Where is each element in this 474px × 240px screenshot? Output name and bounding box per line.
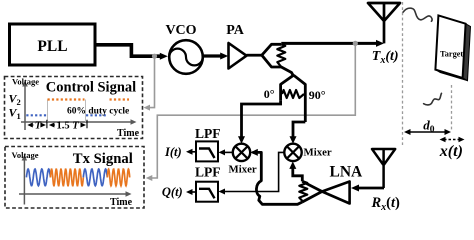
node junction on Tx wire <box>353 41 358 46</box>
svg-text:Mixer: Mixer <box>229 164 257 176</box>
svg-text:Target: Target <box>440 50 463 59</box>
wire PA to splitter <box>247 54 262 57</box>
gray level transition lines <box>48 100 86 123</box>
Tx Signal inset box <box>5 147 144 209</box>
displacement x(t) arrow <box>444 139 460 141</box>
svg-text:Time: Time <box>117 128 140 139</box>
radiated wave squiggle (Tx) <box>403 8 432 21</box>
PLL block U1 <box>10 24 96 65</box>
LNA U6 <box>322 182 350 204</box>
svg-text:PA: PA <box>226 23 245 38</box>
svg-text:Voltage: Voltage <box>12 77 39 87</box>
period tick marks <box>47 120 87 128</box>
svg-text:PLL: PLL <box>37 38 67 55</box>
svg-text:60% duty cycle: 60% duty cycle <box>67 107 129 117</box>
tx waveform orange segment 1 <box>50 169 83 185</box>
wire mixer I to LPF1 <box>224 151 233 153</box>
Rx antenna <box>372 149 395 188</box>
control waveform V2 level (orange dashed) <box>48 98 130 100</box>
LPF2 block <box>196 182 218 202</box>
wire splitter to Tx antenna <box>281 42 376 45</box>
mixer U5 (Q channel) <box>284 144 301 161</box>
wire Rx antenna to LNA <box>357 187 384 190</box>
svg-text:T: T <box>35 121 42 132</box>
gray annotation wire to Tx Signal inset <box>150 43 355 178</box>
svg-text:LPF: LPF <box>195 126 221 141</box>
wire PLL to VCO <box>95 45 160 56</box>
svg-text:Mixer: Mixer <box>304 146 332 158</box>
svg-text:LPF: LPF <box>195 165 221 180</box>
T interval arrows <box>31 124 45 126</box>
svg-text:x(t): x(t) <box>439 143 463 160</box>
svg-text:VCO: VCO <box>165 23 196 38</box>
wire LNA splitter to mixer I (with crossover hop) <box>253 152 303 204</box>
tx waveform blue segment 1 <box>26 169 50 186</box>
control time axis <box>21 121 132 123</box>
svg-text:I(t): I(t) <box>164 145 182 159</box>
wire mixer Q to LPF2 <box>224 152 284 191</box>
resistor R1 (splitter isolation) <box>277 44 285 67</box>
svg-text:LNA: LNA <box>330 164 364 181</box>
svg-text:Tx Signal: Tx Signal <box>73 151 133 167</box>
wire LNA splitter to mixer Q <box>293 167 303 181</box>
1.5T interval arrows <box>53 124 84 126</box>
Tx antenna <box>368 3 400 43</box>
wire LPF1 to I(t) output <box>191 151 196 153</box>
svg-text:Rx(t): Rx(t) <box>371 195 401 213</box>
target reflector <box>463 24 471 81</box>
tx waveform orange segment 2 <box>107 169 129 186</box>
svg-text:1.5 T: 1.5 T <box>57 121 80 132</box>
resistor R2 (hybrid isolation) <box>282 90 304 98</box>
svg-text:Time: Time <box>110 197 133 208</box>
wire LPF2 to Q(t) output <box>191 191 196 193</box>
dashed reference line at antenna plane <box>402 2 404 145</box>
PA amplifier U3 <box>229 43 247 69</box>
reflected wave squiggle (Rx) <box>424 93 442 105</box>
wire VCO to PA <box>203 54 221 57</box>
tx waveform blue segment 2 <box>83 169 107 186</box>
power splitter SP3 at LNA output <box>302 181 322 202</box>
Control Signal inset box <box>5 77 143 139</box>
distance d0 arrow <box>409 131 446 133</box>
dashed reference line at target <box>451 85 453 131</box>
power splitter SP1 <box>262 44 293 75</box>
tx time axis <box>19 193 127 195</box>
svg-text:0°: 0° <box>264 87 275 101</box>
node junction on PLL-VCO wire <box>152 54 157 59</box>
svg-text:Tx(t): Tx(t) <box>372 49 399 66</box>
svg-text:Control Signal: Control Signal <box>46 80 136 96</box>
svg-text:Q(t): Q(t) <box>162 185 183 199</box>
mixer U4 (I channel) <box>233 144 250 161</box>
control voltage axis <box>24 84 26 130</box>
gray annotation wire to Control Signal inset <box>148 56 155 107</box>
tx voltage axis <box>23 158 25 205</box>
svg-text:Voltage: Voltage <box>12 150 39 160</box>
resistor R3 (splitter isolation) <box>299 181 307 202</box>
svg-text:90°: 90° <box>309 88 326 102</box>
LPF1 block <box>196 141 218 161</box>
quadrature hybrid splitter SP2 <box>281 75 306 122</box>
wire 0deg LO to mixer I <box>242 100 281 137</box>
control waveform V1 level (blue dashed) <box>26 114 107 116</box>
wire 90deg LO to mixer Q <box>293 122 305 137</box>
VCO U2 <box>169 40 203 74</box>
